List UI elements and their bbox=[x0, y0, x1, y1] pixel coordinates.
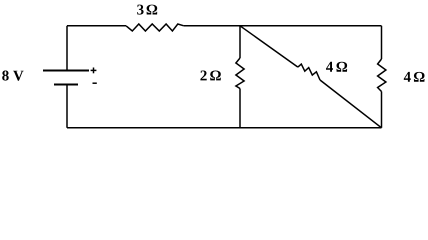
wire left vertical lower bbox=[66, 85, 68, 128]
wire left vertical upper bbox=[66, 26, 68, 71]
wire right vertical upper bbox=[381, 26, 383, 59]
wire top-left segment bbox=[67, 25, 126, 27]
wire middle vertical upper bbox=[239, 26, 241, 58]
battery plus sign bbox=[91, 68, 97, 74]
battery minus sign bbox=[93, 82, 97, 84]
voltage source V1 8V battery bbox=[43, 71, 89, 85]
wire diagonal lower segment bbox=[320, 80, 382, 128]
label 3 ohm bbox=[137, 5, 143, 15]
wire bottom bbox=[67, 127, 382, 129]
resistor 3ohm (top) bbox=[126, 24, 184, 31]
resistor 2ohm (middle vertical) bbox=[236, 58, 244, 89]
label 8 V bbox=[2, 71, 23, 81]
wire diagonal upper segment bbox=[240, 26, 298, 67]
wire right vertical lower bbox=[381, 92, 383, 128]
label 4 ohm right bbox=[404, 72, 411, 82]
label 2 ohm bbox=[200, 71, 206, 81]
wire middle vertical lower bbox=[239, 89, 241, 128]
resistor 4ohm (diagonal) bbox=[298, 64, 320, 80]
label 4 ohm diagonal bbox=[326, 62, 333, 72]
wire top-right segment bbox=[184, 25, 382, 27]
resistor 4ohm (right vertical) bbox=[378, 59, 386, 92]
